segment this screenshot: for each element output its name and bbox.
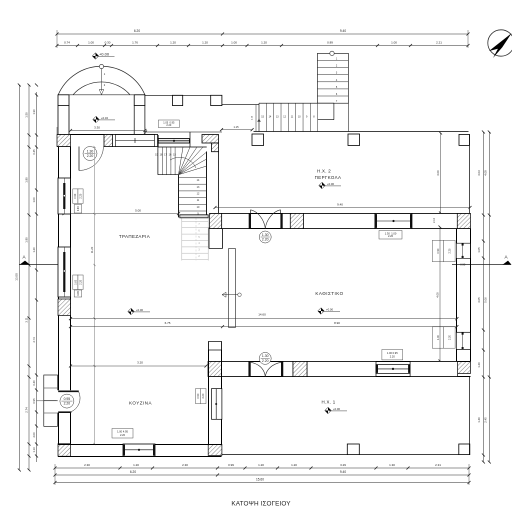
svg-text:6.20: 6.20 bbox=[134, 29, 140, 33]
svg-text:1.15: 1.15 bbox=[233, 125, 239, 129]
svg-text:1.30: 1.30 bbox=[87, 149, 94, 153]
svg-text:15.60: 15.60 bbox=[256, 478, 264, 482]
svg-text:ΚΑΘΙΣΤΙΚΟ: ΚΑΘΙΣΤΙΚΟ bbox=[315, 291, 343, 296]
svg-text:14.60: 14.60 bbox=[258, 313, 266, 317]
svg-text:4.00: 4.00 bbox=[436, 292, 440, 298]
svg-text:5.06: 5.06 bbox=[484, 297, 488, 303]
svg-text:1.30: 1.30 bbox=[262, 233, 269, 237]
svg-text:0.90: 0.90 bbox=[437, 248, 440, 253]
svg-text:ΠΕΡΓΚΟΛΑ: ΠΕΡΓΚΟΛΑ bbox=[315, 175, 342, 180]
svg-text:3.03: 3.03 bbox=[477, 170, 481, 176]
svg-text:0.95: 0.95 bbox=[64, 397, 71, 401]
svg-text:+0.00: +0.00 bbox=[333, 407, 341, 411]
svg-text:1.00: 1.00 bbox=[32, 197, 36, 203]
svg-text:2.20: 2.20 bbox=[202, 393, 205, 398]
svg-text:1.30: 1.30 bbox=[389, 463, 395, 467]
svg-text:2.20: 2.20 bbox=[390, 354, 396, 358]
svg-text:3.29: 3.29 bbox=[340, 463, 346, 467]
svg-text:2.20: 2.20 bbox=[388, 234, 394, 238]
svg-text:3.30: 3.30 bbox=[94, 126, 100, 130]
svg-text:1.20: 1.20 bbox=[291, 463, 297, 467]
svg-text:3.05: 3.05 bbox=[477, 297, 481, 303]
svg-text:ΚΑΤΟΨΗ ΙΣΟΓΕΙΟΥ: ΚΑΤΟΨΗ ΙΣΟΓΕΙΟΥ bbox=[231, 501, 291, 508]
svg-text:2.45: 2.45 bbox=[484, 417, 488, 423]
svg-text:0.90: 0.90 bbox=[77, 206, 80, 211]
svg-text:1.50: 1.50 bbox=[25, 112, 29, 118]
svg-text:3.20: 3.20 bbox=[137, 361, 143, 365]
svg-text:1.20: 1.20 bbox=[261, 41, 267, 45]
svg-text:8.90: 8.90 bbox=[334, 321, 340, 325]
svg-text:2.20: 2.20 bbox=[120, 433, 126, 437]
svg-text:2.74: 2.74 bbox=[32, 337, 36, 343]
svg-text:13.00: 13.00 bbox=[15, 273, 19, 281]
svg-text:0.89: 0.89 bbox=[327, 41, 333, 45]
svg-text:5.00: 5.00 bbox=[135, 208, 141, 212]
svg-text:1.20: 1.20 bbox=[170, 41, 176, 45]
svg-text:2.20: 2.20 bbox=[262, 238, 269, 242]
svg-text:Η.Χ. 1: Η.Χ. 1 bbox=[321, 400, 335, 405]
svg-text:1.05: 1.05 bbox=[477, 247, 481, 253]
svg-text:1.90: 1.90 bbox=[25, 237, 29, 243]
svg-text:1.40: 1.40 bbox=[477, 417, 481, 423]
svg-text:2.20: 2.20 bbox=[79, 279, 82, 284]
svg-text:2.20: 2.20 bbox=[87, 154, 94, 158]
svg-text:+0.00: +0.00 bbox=[136, 308, 144, 312]
svg-text:2.74: 2.74 bbox=[25, 407, 29, 413]
svg-text:2.00: 2.00 bbox=[32, 432, 36, 438]
svg-text:0.90: 0.90 bbox=[77, 291, 80, 296]
svg-text:+0.32: +0.32 bbox=[101, 116, 109, 120]
svg-text:9.40: 9.40 bbox=[337, 203, 343, 207]
svg-text:0.45: 0.45 bbox=[32, 149, 36, 155]
svg-text:0.99: 0.99 bbox=[228, 463, 234, 467]
svg-text:1.00: 1.00 bbox=[231, 41, 237, 45]
svg-text:0.90: 0.90 bbox=[74, 193, 77, 198]
svg-text:2.20: 2.20 bbox=[166, 124, 171, 127]
svg-text:2.20: 2.20 bbox=[262, 359, 269, 363]
svg-text:2.31: 2.31 bbox=[435, 463, 441, 467]
svg-text:ΤΡΑΠΕΖΑΡΙΑ: ΤΡΑΠΕΖΑΡΙΑ bbox=[119, 234, 150, 239]
svg-text:2.20: 2.20 bbox=[79, 193, 82, 198]
svg-text:ΚΟΥΖΙΝΑ: ΚΟΥΖΙΝΑ bbox=[129, 401, 152, 406]
svg-text:1.00: 1.00 bbox=[437, 334, 440, 339]
svg-text:0.40: 0.40 bbox=[32, 380, 36, 386]
svg-text:3.11: 3.11 bbox=[25, 317, 29, 323]
svg-text:1.20: 1.20 bbox=[32, 247, 36, 253]
svg-text:1.20: 1.20 bbox=[258, 463, 264, 467]
svg-text:0.74: 0.74 bbox=[64, 41, 70, 45]
svg-text:2.30: 2.30 bbox=[182, 463, 188, 467]
svg-text:1.00: 1.00 bbox=[391, 41, 397, 45]
svg-text:1.00: 1.00 bbox=[74, 279, 77, 284]
svg-text:0.95: 0.95 bbox=[32, 398, 36, 404]
svg-text:1.13: 1.13 bbox=[32, 447, 36, 453]
svg-text:1.80: 1.80 bbox=[25, 177, 29, 183]
svg-text:6.75: 6.75 bbox=[165, 321, 171, 325]
svg-text:1.30: 1.30 bbox=[262, 354, 269, 358]
svg-text:0.30: 0.30 bbox=[105, 41, 111, 45]
svg-text:2.20: 2.20 bbox=[448, 248, 451, 253]
svg-text:+0.00: +0.00 bbox=[99, 51, 110, 56]
svg-text:9.40: 9.40 bbox=[340, 29, 346, 33]
svg-text:4.09: 4.09 bbox=[484, 170, 488, 176]
svg-text:0.90: 0.90 bbox=[460, 262, 466, 266]
svg-text:1.00 0.95: 1.00 0.95 bbox=[387, 351, 398, 355]
svg-text:+0.00: +0.00 bbox=[327, 182, 335, 186]
svg-text:2.20: 2.20 bbox=[448, 334, 451, 339]
svg-text:6.20: 6.20 bbox=[130, 470, 136, 474]
svg-text:1.20: 1.20 bbox=[202, 41, 208, 45]
svg-text:1.00: 1.00 bbox=[88, 41, 94, 45]
svg-text:Η.Χ. 2: Η.Χ. 2 bbox=[317, 169, 331, 174]
svg-text:1.76: 1.76 bbox=[132, 41, 138, 45]
svg-text:2.20: 2.20 bbox=[64, 402, 71, 406]
svg-text:2.30: 2.30 bbox=[84, 463, 90, 467]
svg-text:2.10: 2.10 bbox=[433, 218, 436, 223]
svg-text:11.20: 11.20 bbox=[90, 246, 94, 253]
svg-text:9.40: 9.40 bbox=[340, 470, 346, 474]
svg-text:1.20: 1.20 bbox=[477, 362, 481, 368]
svg-text:2.21: 2.21 bbox=[436, 41, 442, 45]
svg-text:1.30: 1.30 bbox=[32, 109, 36, 115]
svg-text:0.90: 0.90 bbox=[197, 393, 200, 398]
svg-text:1.20: 1.20 bbox=[133, 463, 139, 467]
svg-text:+0.00: +0.00 bbox=[326, 307, 334, 311]
svg-text:3.00: 3.00 bbox=[436, 170, 440, 176]
